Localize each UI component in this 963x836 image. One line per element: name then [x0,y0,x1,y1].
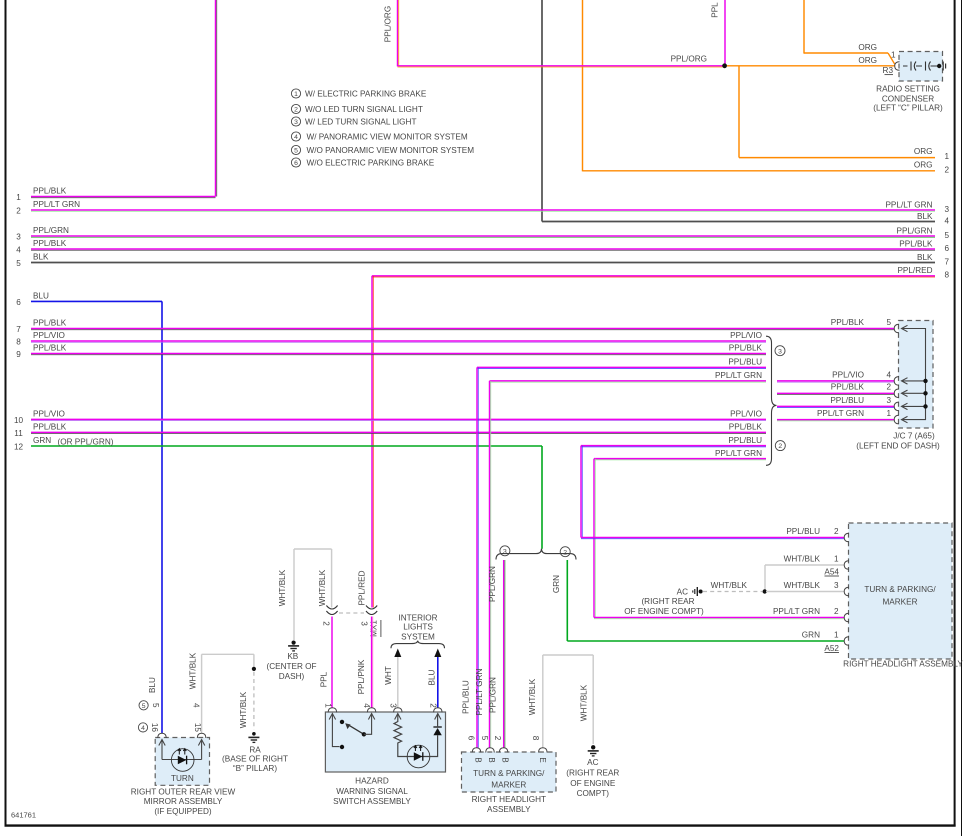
svg-text:7: 7 [945,257,950,266]
hazard LED diode [414,752,423,761]
svg-text:PPL/LT GRN: PPL/LT GRN [475,668,484,715]
svg-text:B: B [487,757,496,762]
svg-text:2: 2 [321,621,330,626]
svg-text:15: 15 [193,723,202,733]
svg-text:SYSTEM: SYSTEM [401,633,435,642]
turn LED arrows [178,749,181,755]
bottom right headlight box [462,752,557,792]
mirror assembly box [155,738,209,786]
wire PPL/LT GRN option2 horizontal [594,458,766,460]
wire WHT/BLK from pin E [542,655,544,748]
switch contact dots [340,745,344,749]
svg-text:4: 4 [362,703,371,708]
hazard pin arrows [329,714,335,720]
turn LED diode [178,756,187,765]
svg-text:PPL/VIO: PPL/VIO [730,410,762,419]
wire 9 PPL/BLK to brace [31,353,766,355]
wire PPL/PNK below MX1 to hazard pin 4 [371,617,373,708]
svg-text:OF ENGINE: OF ENGINE [570,779,616,788]
svg-text:8: 8 [531,736,540,741]
wire 6 BLU left [31,300,162,302]
wire ORG upper to R3 pin 1 [804,52,888,54]
svg-text:PPL: PPL [319,671,328,687]
wire PPL/LT GRN option3 vertical to headlight pin 5 [489,381,491,748]
wire PPL/RED right line 8 [372,275,935,277]
svg-text:PPL/RED: PPL/RED [358,570,367,605]
svg-text:PPL/GRN: PPL/GRN [488,566,497,602]
ground AC bottom [591,745,595,749]
inline connector MX1 left half [326,606,337,610]
wire ORG branch down at x=739 [738,66,740,158]
svg-text:5: 5 [294,148,298,155]
svg-text:W/O LED TURN SIGNAL LIGHT: W/O LED TURN SIGNAL LIGHT [305,105,423,114]
wire BLK right line 4 [542,221,935,223]
svg-text:TURN: TURN [171,774,194,783]
svg-text:PPL/BLK: PPL/BLK [33,344,67,353]
svg-text:B: B [473,757,482,762]
svg-text:WARNING SIGNAL: WARNING SIGNAL [336,787,408,796]
resistor zigzag [394,714,407,757]
svg-text:16: 16 [150,723,159,733]
svg-text:PPL/BLU: PPL/BLU [786,527,820,536]
svg-text:6: 6 [467,736,476,741]
svg-text:BLK: BLK [33,253,49,262]
svg-text:3: 3 [834,581,839,590]
page frame bottom border [5,824,956,826]
wire BLU vertical to mirror [161,301,163,733]
capacitor symbol inside R3 [903,62,938,71]
wire 2 PPL/LT GRN full width [31,209,935,211]
note 5 W/O PANORAMIC VIEW MONITOR SYSTEM [291,145,300,154]
svg-text:PPL/GRN: PPL/GRN [897,226,933,235]
hazard LED circle [407,745,430,768]
svg-text:ORG: ORG [858,56,877,65]
dashed wire to RA ground [253,672,255,730]
svg-text:2: 2 [493,736,502,741]
svg-text:R3: R3 [883,66,894,75]
svg-text:RIGHT OUTER REAR VIEW: RIGHT OUTER REAR VIEW [131,787,236,796]
system arrow BLU [434,649,441,658]
svg-text:WHT/BLK: WHT/BLK [278,569,287,606]
svg-text:(CENTER OF: (CENTER OF [266,662,316,671]
svg-text:BLU: BLU [148,677,157,693]
wire GRN vertical branch [566,560,568,641]
turn LED circle [171,749,194,772]
wire WHT to hazard pin 3 [397,657,399,708]
svg-text:2: 2 [945,165,950,174]
svg-text:(LEFT “C” PILLAR): (LEFT “C” PILLAR) [873,104,943,113]
svg-text:BLK: BLK [917,212,933,221]
svg-text:AC: AC [677,587,688,596]
svg-text:5: 5 [945,231,950,240]
wire PPL/BLU to J/C7 pin 3 [777,405,895,407]
svg-text:TURN & PARKING/: TURN & PARKING/ [473,769,545,778]
svg-text:WHT/BLK: WHT/BLK [784,581,821,590]
wire WHT/BLK mirror to RA [201,654,203,733]
svg-text:PPL/BLK: PPL/BLK [33,319,67,328]
svg-text:1: 1 [834,631,839,640]
svg-text:PPL/PNK: PPL/PNK [357,659,366,694]
R3 case ground bars [942,62,944,71]
svg-text:5: 5 [480,736,489,741]
svg-text:3: 3 [887,396,892,405]
J/C7 pin arrows [902,325,908,331]
wire LED to diode [430,735,438,756]
wire ORG junction to R3 pin 1 [727,65,895,67]
svg-text:PPL/BLK: PPL/BLK [33,239,67,248]
svg-text:2: 2 [428,703,437,708]
mirror pin arcs [158,733,167,738]
J/C7 internal bus [902,329,926,420]
brace merging option groups [766,336,777,465]
note 6 W/O ELECTRIC PARKING BRAKE [291,158,300,167]
wire PPL/BLK to J/C7 pin 2 [777,392,895,394]
pin arc R3 [895,62,900,71]
page frame right thin border [961,0,963,836]
svg-text:4: 4 [945,216,950,225]
page frame right border [954,0,956,827]
svg-text:MARKER: MARKER [882,598,917,607]
svg-text:GRN: GRN [33,436,51,445]
svg-text:HAZARD: HAZARD [355,776,389,785]
svg-text:641761: 641761 [11,811,36,820]
dashed wire to AC ground [703,591,762,593]
ground AC right rear [699,590,703,594]
wire WHT/BLK headlight pin 3 [766,591,844,593]
svg-text:W/ ELECTRIC PARKING BRAKE: W/ ELECTRIC PARKING BRAKE [305,90,427,99]
svg-text:2: 2 [834,527,839,536]
svg-text:4: 4 [192,703,201,708]
svg-text:11: 11 [14,429,23,438]
hazard LED arrows [414,746,417,751]
inline connector MX1 right half [366,606,377,610]
switch pin 1 leg [332,714,339,747]
wire BLU to hazard pin 2 [437,657,439,708]
svg-text:PPL/BLU: PPL/BLU [728,436,762,445]
svg-text:ORG: ORG [914,147,933,156]
svg-text:2: 2 [294,107,298,114]
bottom headlight pin arcs [472,748,481,753]
svg-text:PPL/BLU: PPL/BLU [830,396,864,405]
svg-text:BLK: BLK [917,253,933,262]
svg-text:2: 2 [563,549,567,556]
svg-text:WHT/BLK: WHT/BLK [318,569,327,606]
svg-text:3: 3 [945,205,950,214]
svg-text:PPL/BLU: PPL/BLU [462,680,471,714]
splice dot WHT/BLK [763,589,767,593]
wire PPL/VIO to J/C7 pin 4 [777,380,895,382]
switch arm with arrow [349,725,364,734]
svg-text:5: 5 [887,318,892,327]
system arrow WHT [394,649,401,658]
svg-text:ASSEMBLY: ASSEMBLY [487,805,531,814]
wire PPL/RED vertical at x=372 [371,276,373,608]
svg-text:PPL/BLK: PPL/BLK [33,187,67,196]
svg-text:ORG: ORG [914,160,933,169]
wire PPL/LT GRN option2 vertical [593,459,595,618]
capacitor ground dot [937,64,941,68]
wire ORG vertical from top at x=804 [803,0,805,54]
svg-text:COMPT): COMPT) [577,789,610,798]
wire ORG vertical from top at x=582.5 [582,0,584,171]
brace interior lights [391,641,445,649]
wire 11 PPL/BLK to brace [31,431,766,433]
svg-text:3: 3 [503,548,507,555]
svg-text:WHT/BLK: WHT/BLK [579,684,588,721]
svg-text:8: 8 [16,338,21,347]
svg-text:GRN: GRN [552,575,561,593]
svg-text:1: 1 [294,91,298,98]
svg-text:PPL/RED: PPL/RED [897,266,932,275]
ground RA [252,732,256,736]
svg-text:PPL/VIO: PPL/VIO [730,331,762,340]
svg-text:PPL/BLK: PPL/BLK [899,239,933,248]
svg-text:3: 3 [16,233,21,242]
svg-text:PPL/VIO: PPL/VIO [832,370,864,379]
svg-text:W/ PANORAMIC VIEW MONITOR SYST: W/ PANORAMIC VIEW MONITOR SYSTEM [307,133,468,142]
svg-text:3: 3 [778,348,782,355]
svg-text:J/C 7 (A65): J/C 7 (A65) [893,431,935,440]
wire PPL below MX1 to hazard pin 1 [331,617,333,708]
wire PPL/BLU option2 vertical [580,446,582,538]
right headlight assembly box (turn and parking marker) [849,523,953,659]
svg-text:KB: KB [287,652,298,661]
brace splitting GRN / PPL-GRN [496,549,576,560]
svg-text:6: 6 [294,160,298,167]
note 1 W/ ELECTRIC PARKING BRAKE [291,89,300,98]
svg-text:PPL/BLK: PPL/BLK [33,422,67,431]
svg-text:WHT/BLK: WHT/BLK [239,691,248,728]
svg-text:PPL/LT GRN: PPL/LT GRN [715,449,762,458]
svg-text:RADIO SETTING: RADIO SETTING [876,84,940,93]
junction connector J/C7 box [899,321,934,429]
svg-text:2: 2 [16,207,21,216]
wire PPL/LT GRN option3 horizontal [490,380,767,382]
svg-text:W/O ELECTRIC PARKING BRAKE: W/O ELECTRIC PARKING BRAKE [307,159,435,168]
right headlight pin arcs [844,533,849,542]
svg-text:WHT/BLK: WHT/BLK [188,652,197,689]
svg-text:PPL/LT GRN: PPL/LT GRN [715,371,762,380]
circled 2 at brace [775,441,785,451]
page frame left border [5,0,7,827]
svg-text:1: 1 [945,152,950,161]
svg-text:B: B [500,757,509,762]
wire PPL/BLK vertical from top at x=215.5 [215,0,217,197]
svg-text:4: 4 [887,370,892,379]
svg-text:3: 3 [360,621,369,626]
svg-text:RIGHT HEADLIGHT ASSEMBLY: RIGHT HEADLIGHT ASSEMBLY [843,660,963,669]
svg-text:PPL/ORG: PPL/ORG [671,55,707,64]
wire 10 PPL/VIO to brace [31,418,766,420]
svg-text:3: 3 [294,119,298,126]
svg-text:1: 1 [887,409,892,418]
wire WHT/BLK down to AC ground [592,655,594,744]
wire PPL/LT GRN to J/C7 pin 1 [777,419,895,421]
svg-text:12: 12 [14,443,24,452]
wire 8 PPL/VIO to brace [31,340,766,342]
wire PPL vertical from top at x=725 [724,0,726,66]
svg-text:1: 1 [323,703,332,708]
svg-text:(RIGHT REAR: (RIGHT REAR [641,597,694,606]
ground KB [292,641,296,645]
svg-text:8: 8 [945,271,950,280]
wire 7 PPL/BLK to J/C7 pin 5 [31,328,895,330]
svg-text:9: 9 [16,350,21,359]
svg-text:WHT/BLK: WHT/BLK [528,678,537,715]
svg-text:CONDENSER: CONDENSER [882,94,934,103]
svg-text:(LEFT END OF DASH): (LEFT END OF DASH) [856,441,940,450]
svg-text:RIGHT HEADLIGHT: RIGHT HEADLIGHT [472,795,546,804]
svg-text:PPL/LT GRN: PPL/LT GRN [885,200,932,209]
svg-text:PPL/VIO: PPL/VIO [33,331,65,340]
svg-text:7: 7 [16,325,21,334]
dashed link MX1 [339,612,364,614]
svg-text:6: 6 [16,298,21,307]
svg-text:SWITCH ASSEMBLY: SWITCH ASSEMBLY [333,797,411,806]
wire PPL/BLU option2 horizontal [581,445,766,447]
svg-text:4: 4 [294,134,298,141]
wire ORG diagonal into pin 1 [888,53,895,64]
svg-text:5: 5 [151,703,160,708]
hazard switch box [325,712,445,772]
svg-text:PPL/LT GRN: PPL/LT GRN [817,409,864,418]
svg-text:4: 4 [141,725,145,732]
svg-text:TURN & PARKING/: TURN & PARKING/ [864,585,936,594]
svg-text:PPL/BLK: PPL/BLK [831,318,865,327]
svg-text:ORG: ORG [858,43,877,52]
wire GRN horizontal to right headlight pin 1 [567,640,844,642]
switch to pin 4 [364,714,372,735]
mirror pin arrows [159,740,165,746]
hazard LED line through [407,756,430,758]
note 2 W/O LED TURN SIGNAL LIGHT [291,104,300,113]
wire 5 BLK full width [31,262,935,264]
svg-text:MARKER: MARKER [491,780,526,789]
svg-text:PPL/VIO: PPL/VIO [33,409,65,418]
splice dot RA [252,667,256,671]
svg-text:WHT/BLK: WHT/BLK [711,581,748,590]
svg-text:(RIGHT REAR: (RIGHT REAR [566,769,619,778]
svg-text:(IF EQUIPPED): (IF EQUIPPED) [154,807,212,816]
wire PPL/LT GRN horizontal to headlight pin 2 [594,617,844,619]
svg-text:A52: A52 [824,644,839,653]
svg-text:5: 5 [142,703,146,710]
svg-text:A54: A54 [824,568,839,577]
svg-text:PPL/BLU: PPL/BLU [728,358,762,367]
svg-text:“B” PILLAR): “B” PILLAR) [233,764,277,773]
wire PPL/BLU horizontal to headlight pin 2 [581,537,844,539]
svg-text:PPL/LT GRN: PPL/LT GRN [773,607,820,616]
J/C7 bus junction dots [923,379,927,383]
wire ORG right line 2 [583,170,936,172]
switch pivot dot [362,732,366,736]
mirror internal wire [162,759,202,761]
svg-text:(BASE OF RIGHT: (BASE OF RIGHT [222,755,288,764]
svg-text:PPL/BLK: PPL/BLK [729,423,763,432]
wire PPL/ORG horizontal to junction [398,65,723,67]
svg-text:5: 5 [16,259,21,268]
note 4 W/ PANORAMIC VIEW MONITOR SYSTEM [291,132,300,141]
svg-text:MIRROR ASSEMBLY: MIRROR ASSEMBLY [144,797,223,806]
svg-text:2: 2 [887,383,892,392]
svg-text:(OR PPL/GRN): (OR PPL/GRN) [58,438,114,447]
diode to pin 2 [433,728,441,735]
circled 3 at brace [775,346,785,356]
wire 12 GRN left [31,445,542,447]
wire GRN vertical from line 12 [541,446,543,549]
circled 3 left branch [500,546,510,556]
svg-text:AC: AC [587,758,598,767]
wire PPL/BLU option3 vertical to headlight pin 6 [476,367,478,747]
svg-text:PPL/BLK: PPL/BLK [831,383,865,392]
svg-text:PPL/ORG: PPL/ORG [384,6,393,42]
wire 3 PPL/GRN full width [31,235,935,237]
svg-text:2: 2 [834,607,839,616]
hazard pin arcs [328,708,337,713]
svg-text:PPL/LT GRN: PPL/LT GRN [33,200,80,209]
svg-text:RA: RA [249,745,261,754]
svg-text:PPL/BLK: PPL/BLK [729,344,763,353]
wire WHT/BLK vertical [764,565,766,592]
svg-text:PPL/GRN: PPL/GRN [33,226,69,235]
wire BLK vertical from top at x=542 [541,0,543,222]
svg-text:3: 3 [388,703,397,708]
wire 1 PPL/BLK left [31,196,216,198]
junction node dot [722,63,727,68]
svg-text:BLU: BLU [427,669,436,685]
svg-text:OF ENGINE COMPT): OF ENGINE COMPT) [624,607,704,616]
wire PPL/ORG vertical from top at x=397.5 [397,0,399,66]
svg-text:2: 2 [778,443,782,450]
svg-text:WHT/BLK: WHT/BLK [784,555,821,564]
wire ORG right line 1 [739,157,935,159]
wire 4 PPL/BLK full width [31,248,935,250]
svg-text:GRN: GRN [802,631,820,640]
svg-text:4: 4 [16,246,21,255]
svg-text:W/O PANORAMIC VIEW MONITOR SYS: W/O PANORAMIC VIEW MONITOR SYSTEM [307,146,475,155]
svg-text:10: 10 [14,416,24,425]
svg-text:1: 1 [16,193,21,202]
svg-text:INTERIOR: INTERIOR [398,614,437,623]
svg-text:1: 1 [834,555,839,564]
svg-text:PPL/GRN: PPL/GRN [488,677,497,713]
svg-text:1: 1 [891,51,896,60]
svg-text:E: E [538,757,547,762]
svg-text:6: 6 [945,244,950,253]
svg-text:DASH): DASH) [279,672,305,681]
connector R3 box [899,52,943,82]
svg-text:LIGHTS: LIGHTS [403,623,433,632]
wire PPL/GRN vertical to headlight pin 2 [503,560,505,748]
mirror pin number options [139,701,148,710]
svg-text:W/ LED TURN SIGNAL LIGHT: W/ LED TURN SIGNAL LIGHT [305,118,416,127]
wire WHT/BLK headlight pin 1 [765,564,844,566]
J/C7 pin arcs [894,324,899,333]
circled 2 right branch [560,547,570,557]
svg-text:WHT: WHT [384,666,393,685]
svg-text:BLU: BLU [33,291,49,300]
wire WHT/BLK KB loop [293,549,295,640]
note 3 W/ LED TURN SIGNAL LIGHT [291,117,300,126]
svg-text:PPL: PPL [711,2,720,18]
wire PPL/BLU option3 horizontal [477,366,766,368]
